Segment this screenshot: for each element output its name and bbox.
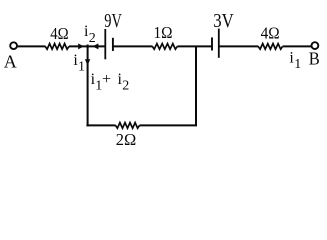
svg-text:A: A (4, 52, 17, 72)
wire 9V to R2 (113, 45, 153, 47)
battery 3V negative plate (211, 37, 213, 50)
bottom rail left (86, 124, 115, 126)
current arrow i2 rightward (78, 43, 84, 49)
current arrow i1 down (85, 59, 90, 65)
wire A to R1 (18, 45, 46, 47)
svg-text:1: 1 (294, 57, 301, 72)
wire R3 to B (283, 45, 312, 47)
resistor R1 4ohm (45, 44, 69, 50)
svg-text:9V: 9V (104, 10, 122, 32)
terminal A (10, 42, 17, 49)
terminal B (312, 42, 319, 49)
battery 9V negative plate (112, 38, 114, 51)
svg-text:3V: 3V (213, 10, 234, 32)
svg-text:+: + (102, 71, 111, 88)
svg-text:1: 1 (78, 59, 85, 74)
svg-text:2: 2 (122, 79, 129, 94)
battery 3V positive plate (218, 29, 220, 58)
svg-text:B: B (309, 48, 320, 68)
battery 9V positive plate (104, 29, 106, 59)
wire R2 to battery 3V (177, 45, 212, 47)
node junction (87, 45, 89, 49)
svg-text:2Ω: 2Ω (116, 130, 137, 149)
svg-text:1Ω: 1Ω (154, 23, 173, 42)
wire R1 to node (69, 45, 88, 47)
current arrow i2 leftward (93, 43, 99, 49)
bottom rail right (140, 124, 198, 126)
svg-text:2: 2 (89, 31, 96, 46)
svg-text:4Ω: 4Ω (50, 24, 68, 43)
resistor R3 4ohm (258, 44, 282, 50)
wire left branch down (87, 46, 89, 126)
svg-text:4Ω: 4Ω (261, 24, 280, 43)
wire right branch down (195, 46, 197, 126)
resistor R4 2ohm (116, 123, 140, 129)
resistor R2 1ohm (152, 44, 177, 50)
wire node to battery 9V (88, 45, 105, 47)
wire 3V to R3 (219, 45, 258, 47)
